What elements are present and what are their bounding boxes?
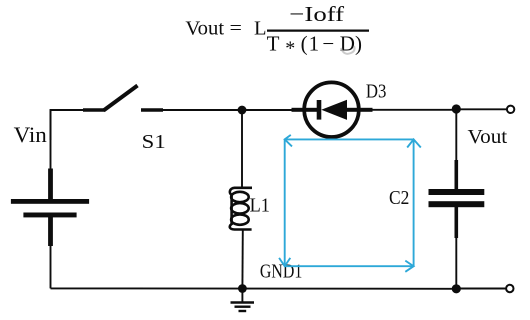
- svg-text:S1: S1: [142, 131, 166, 153]
- svg-text:T: T: [267, 31, 280, 55]
- battery B1 bottom lead (thick): [48, 217, 53, 246]
- current loop arrowhead down (bottom-left corner): [279, 258, 290, 266]
- ground GND1 bar 1: [231, 301, 255, 303]
- ground GND1 bar 2: [235, 306, 251, 308]
- current loop C2: top edge (cyan): [285, 138, 414, 140]
- node C junction dot: [238, 284, 247, 293]
- terminal: output minus (open circle): [506, 285, 513, 292]
- wire: switch to node A: [163, 109, 242, 111]
- node A junction dot: [238, 106, 247, 115]
- wire: node A to diode anode: [242, 109, 294, 111]
- current loop C2: bottom edge: [285, 265, 414, 267]
- diode D3 cathode bar: [317, 100, 322, 120]
- inductor L1 loop 2: [231, 203, 249, 213]
- diode D3 internal wire left: [303, 108, 317, 112]
- diode D3 anode lead (thick): [292, 108, 305, 112]
- svg-text:D3: D3: [366, 81, 387, 103]
- capacitor C1 bottom plate: [429, 201, 485, 207]
- node D junction dot: [452, 284, 461, 293]
- svg-text:L: L: [254, 18, 267, 40]
- svg-text:Vout: Vout: [468, 126, 508, 148]
- grey smudge under D: [341, 46, 355, 54]
- diode D3 triangle: [321, 100, 347, 120]
- current loop C2: left edge: [284, 139, 286, 266]
- node B junction dot: [452, 104, 461, 113]
- battery B1 short plate: [23, 213, 76, 218]
- current loop C2: right edge: [413, 139, 415, 266]
- wire: node D to output minus terminal: [456, 288, 506, 290]
- switch S1 left contact: [83, 108, 105, 112]
- svg-text:Vout: Vout: [185, 18, 224, 40]
- wire: node A down to inductor: [241, 110, 243, 187]
- svg-text:C2: C2: [389, 187, 409, 209]
- formula fraction bar: [267, 30, 369, 32]
- ground GND1 stem: [241, 289, 243, 303]
- wire: diode to node B: [372, 109, 456, 111]
- svg-text:*: *: [285, 38, 295, 60]
- capacitor C1 top lead (thick): [454, 160, 458, 190]
- ground GND1 bar 3: [239, 310, 247, 312]
- diode D3 cathode lead (thick): [359, 108, 373, 112]
- terminal: output plus (open circle): [507, 106, 514, 113]
- svg-text:L1: L1: [250, 194, 270, 216]
- current loop arrowhead up (top-right corner): [407, 139, 421, 147]
- battery B1 top lead (thick): [48, 169, 53, 201]
- wire: left vertical upper (Vin branch): [50, 110, 52, 172]
- svg-text:−Ioff: −Ioff: [289, 2, 345, 26]
- capacitor C1 top plate: [429, 189, 485, 195]
- wire: node B down to capacitor (thin): [455, 109, 457, 162]
- current loop arrowhead right (bottom-right corner): [405, 261, 413, 272]
- wire: capacitor to node D (thin): [455, 237, 457, 289]
- inductor L1 loop 1: [231, 192, 249, 202]
- diode D3 internal wire right: [347, 108, 360, 112]
- switch S1 blade: [104, 86, 138, 111]
- battery B1 long plate: [11, 199, 89, 204]
- current loop arrowhead left (top-left corner): [285, 135, 292, 147]
- inductor L1 left side: [230, 194, 233, 225]
- wire: node B to output plus terminal: [456, 108, 507, 110]
- wire: inductor to node C: [241, 230, 243, 289]
- capacitor C1 bottom lead (thick): [454, 207, 458, 238]
- wire: left vertical lower: [50, 245, 52, 288]
- svg-text:Vin: Vin: [14, 122, 47, 147]
- wire: top-left horizontal (corner to switch): [51, 110, 85, 140]
- diode D3 circle: [304, 82, 359, 137]
- wire: bottom horizontal: [51, 287, 457, 289]
- inductor L1 loop 3: [231, 214, 249, 224]
- svg-text:GND1: GND1: [260, 260, 302, 282]
- svg-text:=: =: [230, 18, 242, 40]
- switch S1 right contact: [141, 108, 163, 112]
- inductor L1 top stub: [230, 188, 252, 195]
- inductor L1 bottom stub: [230, 224, 252, 230]
